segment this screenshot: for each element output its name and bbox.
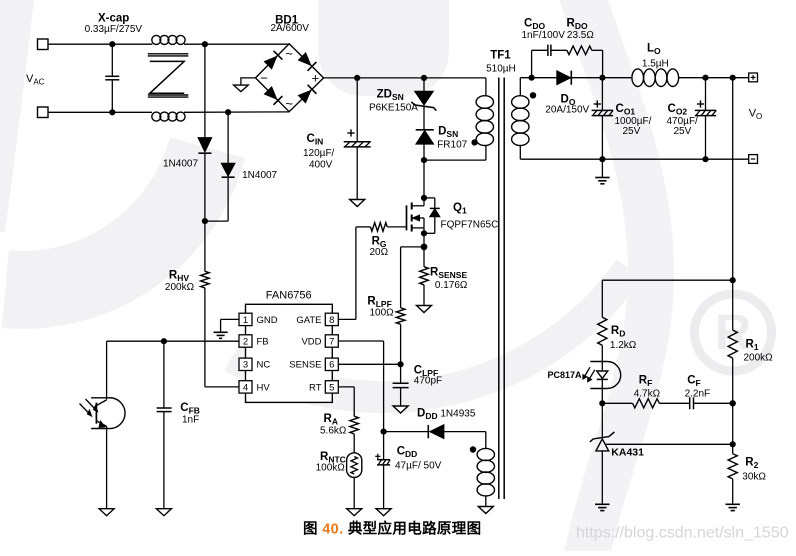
wire feedback top rail [602, 279, 732, 281]
pin 4 HV [239, 381, 252, 393]
svg-text:https://blog.csdn.net/sln_1550: https://blog.csdn.net/sln_1550 [576, 525, 789, 542]
svg-text:0.176Ω: 0.176Ω [435, 280, 468, 291]
node CO1 bottom [599, 156, 605, 162]
resistor RD [601, 280, 603, 317]
earth ground secondary [601, 159, 603, 177]
wire FB [107, 340, 239, 342]
BD1 diode bottom-right [298, 90, 311, 103]
optocoupler phototransistor [106, 341, 108, 399]
svg-text:7: 7 [329, 336, 334, 347]
ground at CDD [376, 509, 391, 516]
ground at RSENSE [417, 306, 432, 313]
node snubber top [421, 75, 427, 81]
transformer TF1 core [498, 78, 500, 500]
transistor Q1 (MOSFET) [406, 205, 408, 230]
resistor RA [350, 416, 359, 434]
svg-text:GATE: GATE [296, 315, 321, 326]
svg-text:100kΩ: 100kΩ [316, 463, 346, 474]
optocoupler light arrows [80, 404, 92, 416]
wire snubber CDO-RDO riser [531, 50, 533, 77]
node R1 bottom [730, 400, 736, 406]
node X-cap bottom [109, 109, 115, 115]
capacitor CIN (electrolytic) [356, 78, 358, 142]
svg-text:VO: VO [749, 108, 763, 122]
wire bottom AC [48, 111, 152, 113]
svg-text:400V: 400V [309, 160, 333, 171]
node CFB [161, 338, 167, 344]
output terminal plus [749, 73, 758, 82]
node FB divider left [599, 400, 605, 406]
svg-text:RA: RA [324, 413, 338, 427]
BD1 negative return wire [241, 78, 256, 85]
svg-text:CIN: CIN [307, 133, 324, 147]
node RHV top [202, 218, 208, 224]
aux winding polarity dot [470, 446, 476, 452]
wire secondary bottom rail [520, 158, 748, 160]
node snubber tap secondary [529, 75, 535, 81]
wire output sense column [732, 78, 734, 281]
svg-text:2.2nF: 2.2nF [685, 389, 711, 400]
wire secondary top rail [520, 77, 556, 79]
svg-text:23.5Ω: 23.5Ω [567, 30, 594, 41]
svg-text:4.7kΩ: 4.7kΩ [634, 389, 661, 400]
node DO cathode [599, 75, 605, 81]
BD1 diode top-left [264, 56, 277, 69]
TF1 primary winding [485, 78, 487, 96]
node CO2 bottom [702, 156, 708, 162]
ground at CLPF [393, 406, 408, 413]
capacitor CO1 (electrolytic) [601, 78, 603, 111]
diode 1N4007 right [221, 163, 235, 176]
wire gate to pin8 [355, 227, 357, 320]
svg-text:FQPF7N65C: FQPF7N65C [441, 220, 499, 231]
pin 5 RT [325, 381, 338, 393]
node R2 top [730, 441, 736, 447]
ground arrow at BD1 minus [234, 85, 249, 92]
node SENSE junction [398, 361, 404, 367]
shunt regulator KA431 [601, 403, 603, 437]
ground at optocoupler emitter [99, 509, 114, 516]
resistor RF [602, 402, 632, 404]
svg-text:47µF/ 50V: 47µF/ 50V [395, 461, 442, 472]
node FB divider right [730, 400, 736, 406]
capacitor CDD (electrolytic) [377, 459, 390, 461]
svg-text:VDD: VDD [301, 336, 321, 347]
svg-text:LO: LO [647, 43, 661, 57]
common-mode choke top winding [152, 35, 161, 44]
svg-text:510µH: 510µH [486, 64, 516, 75]
thermistor RNTC [347, 453, 362, 478]
signal ground at pin1 [214, 331, 228, 333]
resistor RG [387, 226, 406, 228]
optocoupler PC817A LED [607, 362, 621, 389]
ground at aux winding [478, 507, 493, 514]
node CO2 top [702, 75, 708, 81]
TF1 secondary winding [519, 78, 521, 96]
svg-text:TF1: TF1 [490, 50, 511, 62]
svg-text:CDO: CDO [524, 18, 545, 32]
node output branch [730, 75, 736, 81]
node CIN [354, 75, 360, 81]
BD1 diode top-right [298, 53, 311, 65]
svg-text:30kΩ: 30kΩ [742, 472, 766, 483]
wire pin6 to junction [338, 363, 400, 365]
TVS diode ZDSN [415, 91, 434, 105]
node X-cap top [109, 41, 115, 47]
node HV diode tap top [202, 41, 208, 47]
wire diode column 1 [204, 44, 206, 137]
wire snubber column [423, 78, 425, 91]
pin 8 GATE [325, 313, 338, 325]
svg-text:470pF: 470pF [414, 376, 442, 387]
svg-text:5.6kΩ: 5.6kΩ [320, 426, 347, 437]
wire pin1 GND [221, 318, 239, 320]
svg-text:5: 5 [329, 382, 334, 393]
capacitor CO2 (electrolytic) [705, 78, 707, 111]
wire top AC [48, 43, 152, 45]
pin 2 FB [239, 335, 252, 347]
svg-text:25V: 25V [674, 126, 692, 137]
svg-text:FR107: FR107 [437, 140, 467, 151]
choke Z mark [150, 61, 184, 93]
capacitor X-cap [111, 44, 113, 76]
svg-text:FB: FB [257, 336, 269, 347]
wire RHV to HV pin [205, 386, 239, 388]
svg-text:R2: R2 [745, 457, 758, 471]
svg-text:~: ~ [285, 46, 293, 61]
svg-text:~: ~ [285, 96, 293, 111]
ground at CIN [350, 200, 365, 207]
resistor R2 [732, 403, 734, 453]
pin 6 SENSE [325, 358, 338, 370]
svg-text:2A/600V: 2A/600V [271, 23, 310, 34]
wire join diode columns [205, 220, 228, 222]
svg-text:100Ω: 100Ω [370, 308, 395, 319]
svg-text:VAC: VAC [26, 73, 45, 87]
resistor RHV [204, 221, 206, 271]
svg-text:KA431: KA431 [611, 447, 644, 459]
svg-text:GND: GND [257, 315, 278, 326]
svg-text:1.2kΩ: 1.2kΩ [610, 340, 637, 351]
input terminal top (square) [38, 39, 49, 50]
diode DDD 1N4935 [384, 431, 429, 433]
svg-text:CF: CF [687, 375, 701, 389]
svg-text:1nF: 1nF [182, 415, 199, 426]
input terminal bottom (square) [38, 107, 49, 118]
wire source to RLPF [401, 246, 424, 248]
diode 1N4007 left [198, 138, 212, 153]
svg-text:RD: RD [611, 325, 625, 339]
svg-text:20A/150V: 20A/150V [545, 105, 589, 116]
capacitor CF [689, 397, 691, 409]
svg-text:−: − [260, 70, 268, 85]
wire snubber node to primary [424, 159, 486, 161]
diode DO [557, 71, 571, 85]
svg-text:图 40. 典型应用电路原理图: 图 40. 典型应用电路原理图 [303, 520, 481, 538]
svg-text:200kΩ: 200kΩ [165, 282, 195, 293]
TF1 auxiliary winding [477, 448, 494, 460]
svg-text:2: 2 [243, 336, 248, 347]
bridge rectifier BD1 outline [256, 44, 324, 112]
ground at RNTC [347, 509, 362, 516]
wire to aux winding [485, 432, 487, 449]
inductor LO [632, 69, 644, 87]
earth ground at R2 [726, 503, 740, 505]
wire bottom to bridge [184, 111, 289, 113]
resistor R1 [732, 280, 734, 330]
output terminal minus [749, 155, 758, 164]
svg-text:+: + [312, 70, 320, 85]
svg-text:8: 8 [329, 315, 334, 326]
svg-text:HV: HV [257, 382, 271, 393]
node HV diode tap bottom [225, 109, 231, 115]
svg-text:3: 3 [243, 360, 248, 371]
capacitor CFB [163, 341, 165, 408]
svg-text:RSENSE: RSENSE [430, 267, 467, 281]
resistor RDO [567, 46, 592, 55]
svg-text:6: 6 [329, 360, 334, 371]
capacitor CDO [547, 45, 549, 56]
node feedback top [730, 277, 736, 283]
svg-text:P6KE150A: P6KE150A [369, 103, 418, 114]
choke core [148, 53, 189, 55]
pin 3 NC [239, 358, 252, 370]
svg-text:PC817A: PC817A [547, 370, 582, 380]
resistor RSENSE [423, 247, 425, 267]
wire diode column 2 [227, 112, 229, 163]
op-amp U1 FAN6756 body [246, 304, 333, 402]
svg-text:1: 1 [243, 315, 248, 326]
svg-text:RT: RT [309, 382, 322, 393]
svg-text:FAN6756: FAN6756 [266, 290, 312, 302]
svg-text:25V: 25V [623, 126, 641, 137]
wire pin7 VDD [338, 340, 383, 342]
node source junction [421, 244, 428, 251]
svg-text:120µF/: 120µF/ [303, 148, 335, 159]
wire top to bridge [184, 43, 289, 45]
node CDD [381, 429, 387, 435]
svg-text:0.33µF/275V: 0.33µF/275V [85, 24, 143, 35]
svg-text:R1: R1 [746, 339, 759, 353]
node source [421, 230, 427, 236]
wire main DC rail [324, 77, 486, 79]
svg-text:NC: NC [257, 360, 271, 371]
svg-text:X-cap: X-cap [98, 13, 129, 25]
wire drain column [423, 160, 425, 206]
svg-text:4: 4 [243, 382, 248, 393]
resistor RLPF [396, 308, 405, 325]
svg-text:200kΩ: 200kΩ [744, 353, 774, 364]
svg-text:DSN: DSN [438, 126, 458, 140]
TF1 primary polarity dot [471, 139, 477, 145]
svg-text:CDD: CDD [397, 446, 418, 460]
ground at CFB [156, 509, 171, 516]
pin 7 VDD [325, 335, 338, 347]
svg-text:CO2: CO2 [668, 103, 688, 117]
svg-text:Q1: Q1 [453, 202, 467, 216]
svg-text:1N4007: 1N4007 [242, 170, 277, 181]
svg-text:SENSE: SENSE [289, 360, 321, 371]
svg-text:1nF/100V: 1nF/100V [522, 30, 566, 41]
svg-text:CFB: CFB [180, 402, 200, 416]
node body diode top [421, 195, 427, 201]
wire KA431 ref [605, 443, 732, 445]
svg-text:20Ω: 20Ω [370, 247, 389, 258]
TF1 secondary polarity dot [530, 92, 536, 98]
svg-text:1.5µH: 1.5µH [642, 59, 669, 70]
earth ground at KA431 [595, 503, 609, 505]
capacitor CLPF [400, 364, 402, 383]
node snubber bottom [421, 157, 427, 163]
common-mode choke bottom winding [152, 112, 161, 121]
svg-text:1N4007: 1N4007 [163, 159, 198, 170]
BD1 diode bottom-left [264, 87, 277, 100]
wire emitter to ground [106, 426, 108, 508]
PC817A LED arrows [588, 370, 594, 381]
diode DSN [416, 129, 434, 131]
Q1 body diode [424, 197, 435, 199]
wire pin5 RT [338, 386, 354, 388]
pin 1 GND [239, 313, 252, 325]
